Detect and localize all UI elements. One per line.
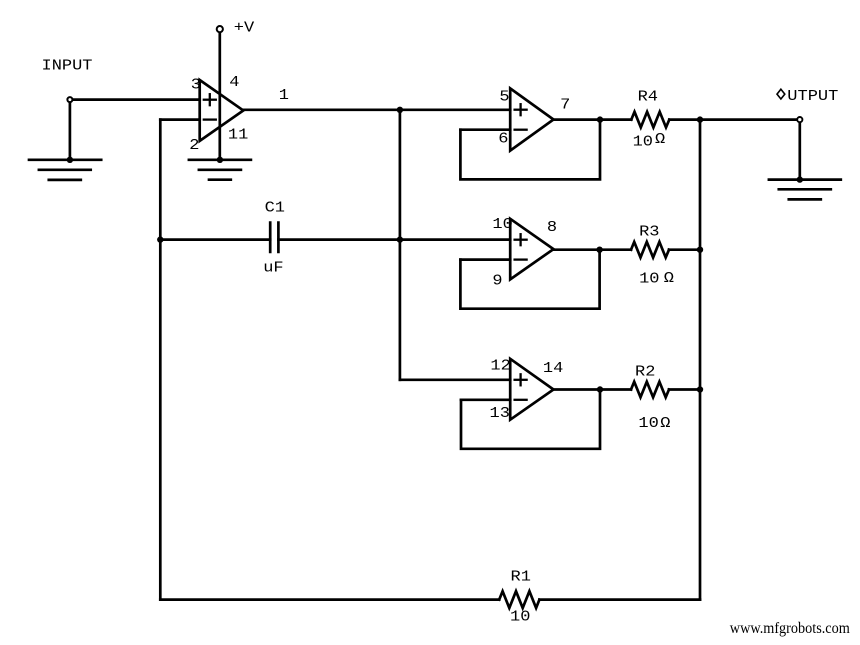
- ground input: [29, 160, 101, 180]
- wire U3 inverting input: [460, 258, 510, 261]
- minus symbol U2: [515, 129, 527, 131]
- wire U2 feedback loop: [460, 120, 600, 180]
- wire right rail: [699, 120, 702, 600]
- svg-text:R1: R1: [511, 569, 531, 585]
- resistor R3 zigzag: [631, 242, 669, 258]
- resistor R4 zigzag: [631, 112, 669, 128]
- svg-text:2: 2: [189, 137, 199, 153]
- svg-text:3: 3: [191, 77, 201, 93]
- svg-text:R4: R4: [638, 88, 658, 104]
- ground U1 power: [189, 160, 251, 180]
- resistor R1 zigzag: [499, 591, 539, 608]
- wire R2 to right rail: [669, 388, 700, 391]
- svg-text:7: 7: [560, 97, 570, 113]
- svg-text:14: 14: [543, 360, 563, 376]
- wire U1 inverting input: [160, 118, 199, 121]
- wire input terminal to ground: [69, 100, 72, 160]
- svg-text:4: 4: [229, 74, 239, 90]
- svg-text:R3: R3: [639, 223, 659, 239]
- minus symbol U1: [204, 118, 216, 120]
- wire bottom loop left: [160, 598, 499, 601]
- plus symbol U1: [204, 94, 216, 105]
- svg-text:+V: +V: [234, 19, 255, 35]
- wire +V supply down through U1 to ground: [218, 33, 221, 160]
- wire bus vertical node 1: [399, 110, 402, 380]
- label OUTPUT: [777, 89, 785, 99]
- svg-text:6: 6: [498, 131, 508, 147]
- svg-text:uF: uF: [263, 260, 283, 276]
- junction R4 output node: [697, 116, 703, 122]
- wire U1 output to node 1 bus: [243, 108, 510, 111]
- junction C1 left: [157, 236, 163, 242]
- junction input ground: [67, 157, 73, 163]
- junction U3 feedback: [596, 247, 602, 253]
- wire U4 output: [554, 388, 632, 391]
- wire bottom loop right: [539, 598, 700, 601]
- wire left rail: [159, 120, 162, 600]
- op-amp U1 triangle: [200, 80, 244, 141]
- minus symbol U3: [515, 258, 527, 260]
- svg-text:UTPUT: UTPUT: [787, 88, 838, 104]
- wire R3 to right rail: [669, 248, 700, 251]
- svg-text:11: 11: [228, 127, 248, 143]
- capacitor C1 plates: [270, 223, 278, 252]
- wire OUTPUT terminal to ground: [798, 123, 801, 180]
- wire U3 output: [554, 248, 632, 251]
- svg-text:10: 10: [633, 134, 653, 150]
- wire C1 left lead: [160, 238, 270, 241]
- svg-text:C1: C1: [265, 199, 285, 215]
- junction C1 bus: [397, 236, 403, 242]
- plus symbol U3: [515, 234, 527, 245]
- wire U4 feedback loop: [461, 390, 600, 449]
- terminal input: [67, 97, 72, 102]
- op-amp U4 triangle: [510, 359, 553, 420]
- svg-text:INPUT: INPUT: [42, 57, 93, 73]
- terminal OUTPUT: [797, 117, 802, 122]
- junction U1 ground: [217, 157, 223, 163]
- wire bus to U4 noninverting input: [400, 378, 510, 381]
- junction U4 feedback: [597, 386, 603, 392]
- svg-text:10: 10: [639, 271, 659, 287]
- wire U3 feedback loop: [460, 250, 599, 309]
- resistor R2 zigzag: [631, 382, 669, 398]
- svg-text:10: 10: [510, 609, 530, 625]
- svg-text:5: 5: [499, 89, 509, 105]
- svg-text:8: 8: [547, 219, 557, 235]
- junction R2 right rail: [697, 386, 703, 392]
- junction U2 feedback: [597, 116, 603, 122]
- wire U2 output: [554, 118, 632, 121]
- plus symbol U2: [515, 104, 527, 115]
- junction node 1 bus top: [397, 107, 403, 113]
- terminal +V: [217, 26, 223, 32]
- svg-text:10: 10: [638, 415, 658, 431]
- svg-text:12: 12: [490, 357, 510, 373]
- junction output ground: [797, 176, 803, 182]
- minus symbol U4: [515, 399, 527, 401]
- svg-text:1: 1: [279, 87, 289, 103]
- wire INPUT to U1 noninverting input: [70, 98, 200, 101]
- wire U4 inverting input: [461, 398, 510, 401]
- svg-text:13: 13: [490, 405, 510, 421]
- wire output node to OUTPUT terminal: [700, 118, 800, 121]
- svg-text:Ω: Ω: [660, 415, 671, 431]
- svg-text:10: 10: [492, 216, 512, 232]
- wire U2 inverting input: [460, 128, 510, 131]
- wire C1 right lead to U3 input: [278, 238, 510, 241]
- ground output: [769, 180, 841, 200]
- op-amp U2 triangle: [510, 88, 553, 150]
- svg-text:Ω: Ω: [664, 270, 675, 286]
- svg-text:9: 9: [492, 273, 502, 289]
- svg-text:Ω: Ω: [655, 131, 666, 147]
- svg-text:www.mfgrobots.com: www.mfgrobots.com: [730, 620, 850, 637]
- wire R4 to output node: [669, 118, 700, 121]
- junction R3 right rail: [697, 247, 703, 253]
- svg-text:R2: R2: [635, 364, 655, 380]
- op-amp U3 triangle: [510, 219, 553, 280]
- plus symbol U4: [515, 374, 527, 385]
